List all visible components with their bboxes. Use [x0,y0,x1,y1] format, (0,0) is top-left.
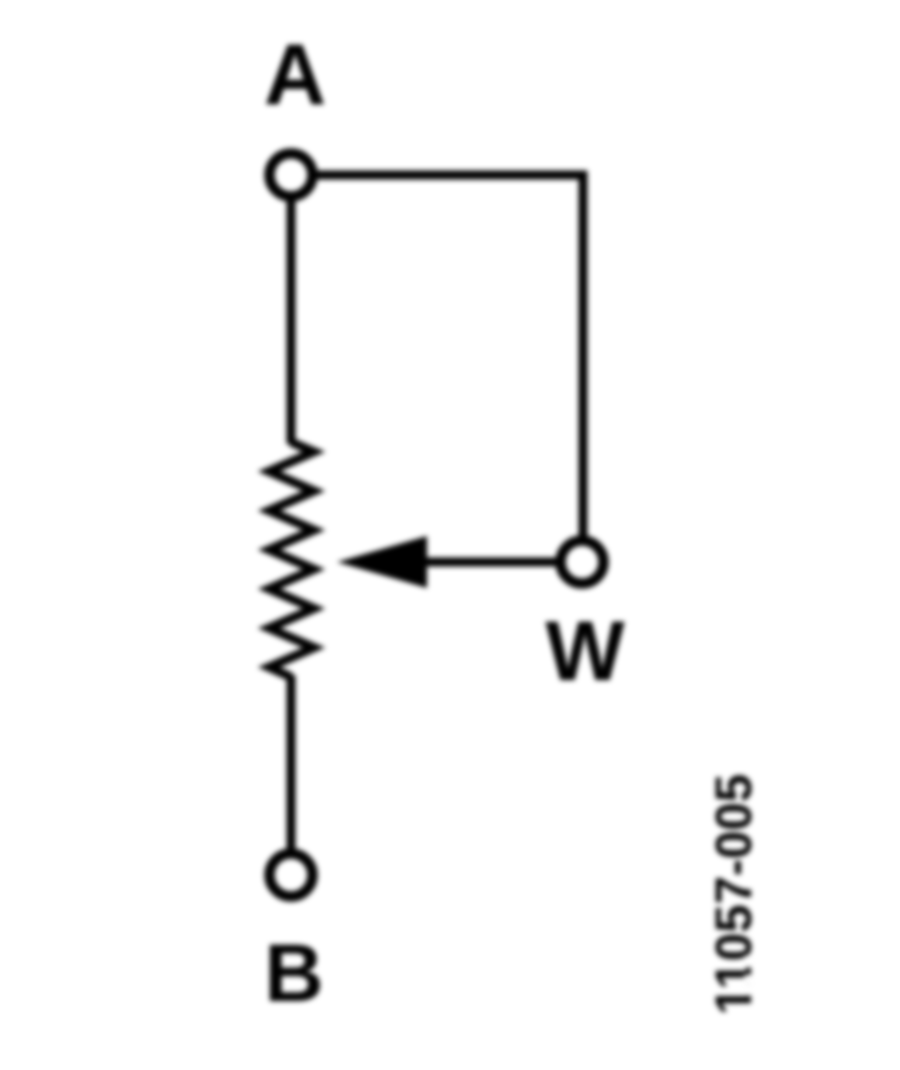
wire [287,675,296,850]
wire [420,558,561,567]
wire [579,171,588,541]
terminal A [270,154,313,197]
wire [287,197,296,445]
wire [313,171,588,180]
svg-text:A: A [264,27,326,123]
svg-text:11057-005: 11057-005 [705,774,762,1015]
terminal B [270,854,313,897]
resistor [269,442,314,677]
svg-text:W: W [545,604,625,698]
terminal W [561,541,604,584]
svg-text:B: B [264,928,323,1019]
figure number 11057-005 [705,774,762,1015]
wiper arrow [337,536,427,588]
